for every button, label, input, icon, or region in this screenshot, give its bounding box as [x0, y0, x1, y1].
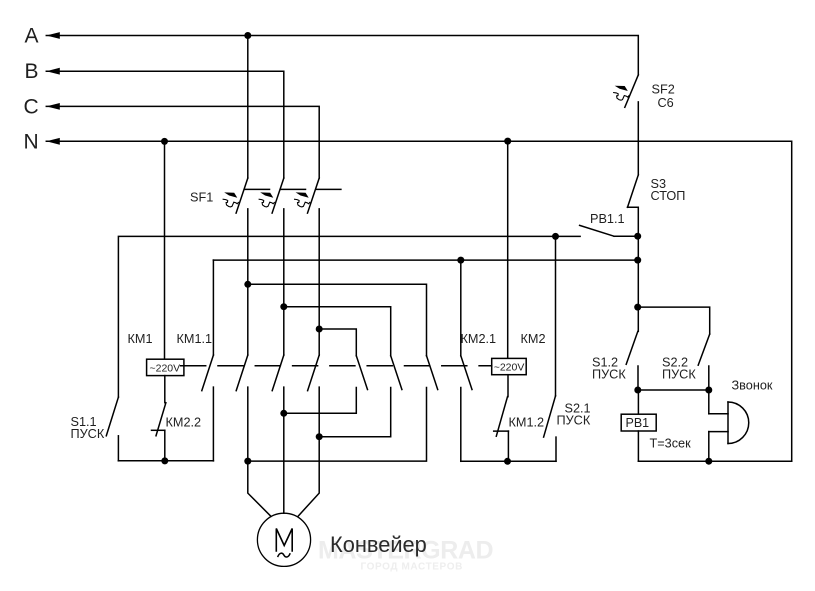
- wire SF2 to S3: [637, 102, 639, 175]
- wire phase B below SF1: [283, 209, 285, 355]
- button S2.1: [544, 236, 556, 461]
- junction B output: [280, 410, 287, 417]
- contactor KM2 main pole 2: [391, 356, 402, 390]
- neutral line N: [46, 141, 791, 461]
- contactor KM2 main pole 3: [427, 356, 438, 390]
- svg-text:~220V: ~220V: [150, 362, 181, 374]
- relay coil PB1: [621, 390, 656, 461]
- phase line A: [46, 36, 638, 75]
- svg-text:КМ1.1: КМ1.1: [177, 332, 213, 346]
- breaker SF1 pole A: [223, 178, 270, 213]
- wire right control bottom: [461, 460, 556, 462]
- watermark MASTERGRAD: [318, 537, 493, 573]
- junction B crisscross: [280, 303, 287, 310]
- button S1.1: [106, 397, 118, 461]
- breaker SF1 pole B: [259, 178, 306, 213]
- phase line B: [46, 71, 283, 178]
- contactor aux KM2.1: [461, 260, 472, 461]
- junction W2 KM2.1: [457, 257, 464, 264]
- button S1.2: [626, 331, 638, 390]
- svg-text:РВ1: РВ1: [626, 416, 650, 430]
- arrow A: [46, 32, 60, 39]
- svg-text:ПУСК: ПУСК: [557, 414, 591, 428]
- svg-text:Звонок: Звонок: [732, 379, 773, 393]
- svg-text:B: B: [25, 60, 39, 83]
- wire C output tie to KM2 pole2: [319, 388, 391, 437]
- svg-text:SF2: SF2: [652, 83, 675, 97]
- svg-text:ПУСК: ПУСК: [662, 368, 696, 382]
- junction S3 wire S2.2: [634, 304, 641, 311]
- svg-text:КМ2.1: КМ2.1: [461, 332, 497, 346]
- svg-text:~220V: ~220V: [494, 361, 525, 373]
- button S3 STOP: [628, 175, 639, 332]
- contactor aux KM1.1: [202, 260, 214, 461]
- wire C output to motor: [298, 387, 319, 516]
- svg-text:С6: С6: [658, 96, 674, 110]
- svg-text:ПУСК: ПУСК: [71, 427, 105, 441]
- junction S2.2 bottom: [705, 387, 712, 394]
- wire phase A below SF1: [247, 209, 249, 355]
- svg-text:РВ1.1: РВ1.1: [590, 212, 625, 226]
- contact KM2.2 NC: [152, 403, 166, 461]
- wire phase C below SF1: [318, 209, 320, 355]
- wire C to KM2 pole1 top: [319, 329, 356, 356]
- svg-text:A: A: [25, 25, 39, 48]
- svg-text:КМ1.2: КМ1.2: [509, 416, 545, 430]
- relay contact PB1.1: [580, 225, 638, 236]
- bell Zvonok: [709, 390, 749, 461]
- junction N KM2: [504, 138, 511, 145]
- coil KM1: [147, 141, 184, 402]
- arrow N: [46, 138, 60, 145]
- junction KM2.2 bottom: [161, 457, 168, 464]
- wire B output to motor: [283, 387, 285, 513]
- junction C crisscross: [316, 326, 323, 333]
- wire A output to motor: [248, 387, 271, 516]
- contactor KM1 main pole C: [308, 355, 320, 391]
- coil KM2: [492, 141, 527, 397]
- wire A to KM2 pole3 top: [248, 284, 427, 355]
- wire left bottom: [118, 460, 213, 462]
- wire far right bottom: [638, 460, 791, 462]
- motor M: [257, 513, 310, 566]
- arrow B: [46, 68, 60, 75]
- svg-text:ПУСК: ПУСК: [592, 368, 626, 382]
- junction A output: [244, 458, 251, 465]
- phase line C: [46, 106, 319, 178]
- junction bell bottom: [705, 458, 712, 465]
- wire W1 start bus: [118, 236, 580, 397]
- svg-text:Конвейер: Конвейер: [330, 532, 427, 557]
- svg-text:N: N: [24, 130, 39, 153]
- contactor KM1 main pole B: [272, 355, 284, 391]
- junction KM1.2 bottom: [504, 458, 511, 465]
- contactor KM1 main pole A: [236, 355, 248, 391]
- breaker SF1 pole C: [294, 178, 341, 213]
- breaker SF2: [613, 75, 638, 107]
- junction S1.2 bottom: [634, 387, 641, 394]
- junction A crisscross: [244, 281, 251, 288]
- svg-text:КМ2: КМ2: [521, 332, 546, 346]
- svg-text:КМ2.2: КМ2.2: [166, 416, 202, 430]
- arrow C: [46, 103, 60, 110]
- svg-text:ГОРОД МАСТЕРОВ: ГОРОД МАСТЕРОВ: [361, 562, 463, 573]
- button S2.2: [638, 307, 710, 390]
- svg-text:Т=3сек: Т=3сек: [650, 437, 692, 451]
- svg-text:СТОП: СТОП: [651, 189, 686, 203]
- wire A output tie to KM2 pole3: [248, 388, 427, 462]
- wire S1.2 S2.2 bottoms: [638, 389, 709, 391]
- svg-text:SF1: SF1: [190, 191, 213, 205]
- contactor KM2 main pole 1: [356, 356, 367, 390]
- svg-text:КМ1: КМ1: [128, 332, 153, 346]
- junction A drop: [244, 32, 251, 39]
- junction W2 right: [634, 257, 641, 264]
- junction S3 wire PB1.1: [634, 233, 641, 240]
- wire phase A drop: [247, 36, 249, 179]
- junction N KM1: [161, 138, 168, 145]
- wire B to KM2 pole2 top: [284, 307, 391, 356]
- junction C output: [316, 433, 323, 440]
- wire B output tie to KM2 pole1: [284, 388, 357, 414]
- wire W2 selfhold bus: [213, 259, 637, 261]
- contact KM1.2 NC: [494, 397, 509, 462]
- mechanical link dashed: [181, 365, 492, 367]
- svg-text:C: C: [24, 95, 39, 118]
- junction W1 S2.1: [552, 233, 559, 240]
